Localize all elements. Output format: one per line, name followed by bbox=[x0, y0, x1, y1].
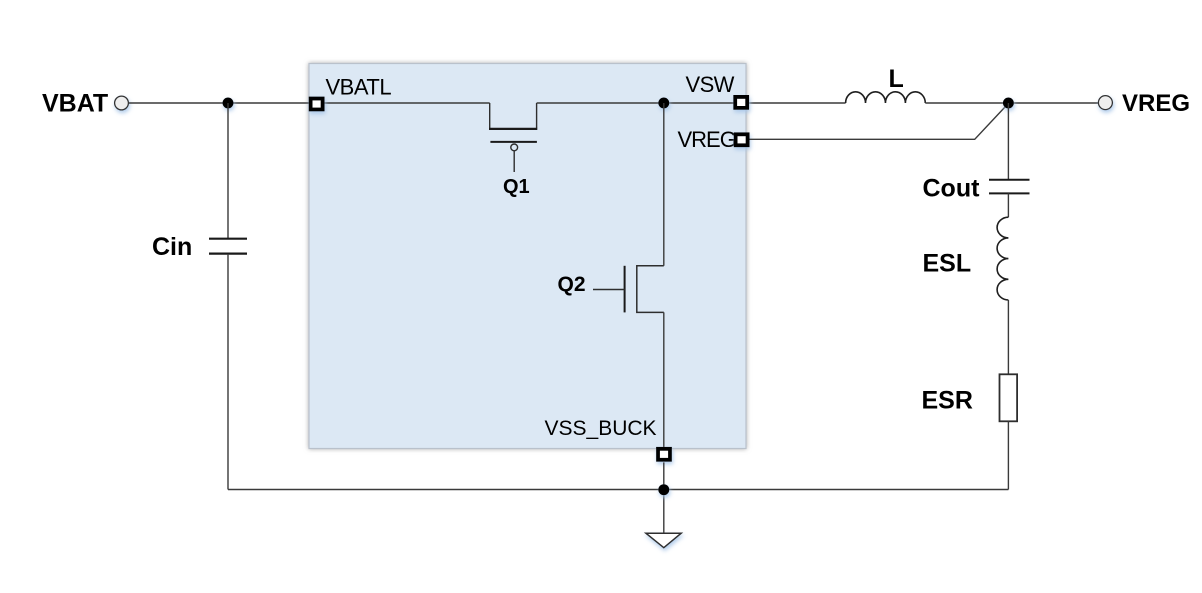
wire Q1 drain to VSW bbox=[537, 102, 846, 104]
label VSS_BUCK bbox=[545, 417, 657, 440]
node VBAT/Cin junction bbox=[223, 98, 234, 109]
node VSW bbox=[658, 98, 669, 109]
transistor Q1 (PMOS) bbox=[489, 103, 537, 172]
capacitor Cout bbox=[989, 180, 1030, 194]
label VREG pin bbox=[678, 127, 736, 152]
transistor Q2 (NMOS) bbox=[593, 266, 664, 313]
inductor ESL bbox=[997, 217, 1008, 300]
resistor ESR bbox=[1000, 374, 1018, 421]
svg-text:VREG: VREG bbox=[1122, 90, 1190, 117]
label L bbox=[889, 65, 904, 93]
IC block (buck converter) bbox=[309, 64, 746, 449]
svg-text:Q2: Q2 bbox=[558, 273, 586, 296]
label ESL bbox=[923, 250, 972, 278]
svg-text:Cin: Cin bbox=[152, 233, 192, 261]
node VREG output bbox=[1003, 98, 1014, 109]
label VREG terminal bbox=[1122, 90, 1190, 117]
wire inductor to output node bbox=[925, 102, 1098, 104]
label ESR bbox=[922, 387, 973, 415]
pin VSW bbox=[735, 97, 747, 108]
wire Cin to bottom rail bbox=[227, 254, 229, 490]
wire VREG pin to output node bbox=[750, 103, 1009, 139]
wire ESL to ESR bbox=[1007, 300, 1009, 374]
svg-text:Q1: Q1 bbox=[503, 176, 530, 198]
wire junction to Cin bbox=[227, 103, 229, 238]
svg-text:ESL: ESL bbox=[923, 250, 972, 278]
svg-text:VREG: VREG bbox=[678, 127, 736, 152]
label VBATL bbox=[326, 74, 392, 99]
svg-text:VBAT: VBAT bbox=[42, 90, 108, 118]
capacitor Cin bbox=[209, 239, 247, 254]
svg-text:VSS_BUCK: VSS_BUCK bbox=[545, 417, 657, 440]
svg-text:L: L bbox=[889, 65, 904, 93]
terminal VREG bbox=[1098, 96, 1112, 110]
pin VBATL bbox=[311, 99, 323, 110]
ground bbox=[646, 533, 681, 548]
svg-text:VBATL: VBATL bbox=[326, 74, 392, 99]
label Cout bbox=[923, 175, 981, 203]
node ground junction bbox=[658, 484, 669, 495]
wire VBAT to Q1 source bbox=[128, 102, 489, 104]
terminal VBAT bbox=[115, 96, 129, 110]
label Q1 bbox=[503, 176, 530, 198]
wire Cout to ESL bbox=[1007, 193, 1009, 217]
wire ESR to bottom rail bbox=[1007, 421, 1009, 489]
pin VSS_BUCK bbox=[658, 449, 670, 460]
label Q2 bbox=[558, 273, 586, 296]
wire Q2 source to VSS_BUCK pin bbox=[663, 312, 665, 448]
wire bottom ground rail bbox=[228, 489, 1008, 491]
label VSW bbox=[686, 72, 735, 97]
svg-text:Cout: Cout bbox=[923, 175, 981, 203]
label Cin bbox=[152, 233, 192, 261]
wire node to Cout bbox=[1007, 103, 1009, 179]
wire VSS_BUCK pin to ground bbox=[663, 462, 665, 533]
wire VSW node to Q2 drain bbox=[663, 103, 665, 266]
pin VREG bbox=[736, 134, 748, 145]
inductor L bbox=[846, 92, 926, 103]
label VBAT bbox=[42, 90, 108, 118]
svg-text:VSW: VSW bbox=[686, 72, 735, 97]
svg-text:ESR: ESR bbox=[922, 387, 973, 415]
